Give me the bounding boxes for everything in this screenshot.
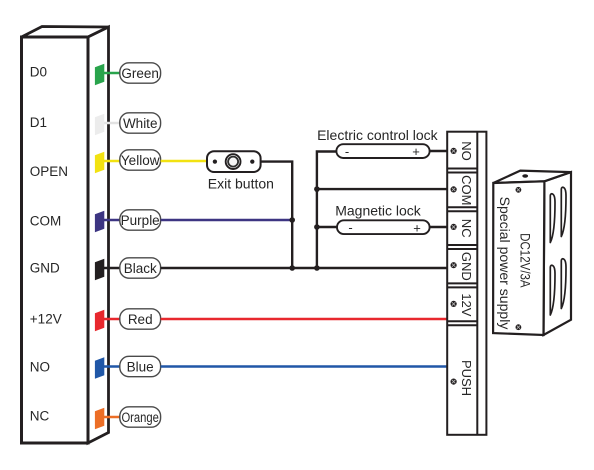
svg-text:Red: Red (128, 312, 153, 327)
label pill Purple (120, 210, 161, 230)
junction column 2 (317, 152, 337, 269)
exit button body (207, 151, 261, 172)
reader side face (88, 27, 109, 443)
power supply vent slot 1 (550, 194, 555, 243)
power supply vent slot 4 (561, 259, 566, 309)
wire stub blue (100, 365, 122, 368)
terminal screw NC (451, 224, 457, 230)
svg-text:Electric control lock: Electric control lock (317, 127, 439, 143)
svg-text:Black: Black (124, 261, 157, 276)
COM wire to terminal (317, 188, 448, 190)
label pill Blue (120, 356, 161, 376)
svg-text:Blue: Blue (127, 359, 154, 374)
junction dot column1/GND (289, 265, 295, 271)
exit button switch inner ring (228, 157, 238, 167)
svg-text:GND: GND (459, 252, 474, 281)
electric control lock body (336, 144, 429, 158)
power supply top face (493, 171, 571, 183)
svg-text:Magnetic lock: Magnetic lock (335, 203, 422, 219)
svg-text:NO: NO (459, 141, 474, 161)
connector green (95, 64, 104, 85)
svg-text:NC: NC (459, 219, 474, 238)
power supply front screw (516, 324, 522, 330)
svg-text:COM: COM (30, 213, 62, 228)
svg-text:Yellow: Yellow (121, 153, 160, 168)
svg-text:DC12V/3A: DC12V/3A (517, 233, 532, 288)
svg-text:Purple: Purple (121, 213, 160, 228)
svg-text:Special power supply: Special power supply (497, 197, 512, 330)
svg-text:D0: D0 (30, 65, 47, 80)
terminal screw GND (451, 262, 457, 268)
wire stub black (100, 267, 122, 270)
terminal divider 5 (447, 320, 477, 322)
svg-text:White: White (123, 116, 158, 131)
svg-text:12V: 12V (459, 293, 474, 316)
purple wire COM (161, 219, 293, 221)
junction dot column2/COM (314, 186, 320, 192)
svg-text:-: - (345, 144, 349, 159)
svg-text:PUSH: PUSH (459, 360, 474, 396)
connector purple (95, 211, 104, 233)
svg-text:COM: COM (459, 175, 474, 205)
svg-text:+: + (412, 144, 420, 159)
terminal screw 12V (451, 301, 457, 307)
junction dot purple/column1 (289, 217, 295, 223)
connector blue (95, 357, 104, 379)
svg-text:Orange: Orange (121, 410, 159, 425)
connector black (95, 259, 104, 281)
electric lock wire to NO (430, 150, 448, 152)
magnetic lock body (337, 220, 430, 234)
wire stub orange (100, 416, 122, 419)
svg-text:-: - (348, 220, 352, 235)
reader front face (22, 37, 89, 443)
terminal strip inner rail (476, 132, 478, 435)
blue wire PUSH (161, 365, 448, 368)
terminal strip body (447, 132, 486, 435)
connector red (95, 310, 104, 332)
connector orange (95, 408, 104, 430)
power supply front face (493, 181, 544, 335)
magnetic lock left stub (317, 226, 338, 228)
exit button switch outer ring (226, 154, 241, 169)
power supply front screw (516, 187, 522, 193)
wire stub purple (100, 219, 122, 222)
connector yellow (95, 152, 104, 174)
svg-text:OPEN: OPEN (30, 164, 68, 179)
connector white (95, 114, 104, 136)
power supply top screw (522, 174, 528, 177)
label pill Red (120, 309, 161, 329)
svg-text:+: + (413, 220, 421, 235)
terminal screw NO (451, 148, 457, 154)
power supply side face (544, 172, 572, 335)
wire stub white (100, 122, 122, 125)
power supply vent slot 2 (561, 187, 566, 236)
terminal divider 1 (447, 168, 477, 170)
junction dot column2/magnetic (314, 224, 320, 230)
wire exit button to junction column 1 (261, 162, 292, 268)
label pill Yellow (120, 150, 161, 170)
exit button left screw (213, 159, 217, 163)
label pill Orange (120, 407, 161, 427)
yellow wire to exit button (161, 160, 208, 163)
wire stub yellow (100, 160, 122, 163)
power supply vent slot 3 (550, 265, 555, 315)
svg-text:Green: Green (121, 66, 159, 81)
label pill Green (120, 63, 161, 83)
svg-text:Exit button: Exit button (208, 176, 274, 192)
junction dot column2/GND (314, 265, 320, 271)
svg-text:NC: NC (30, 409, 50, 424)
terminal screw PUSH (451, 379, 457, 385)
terminal screw COM (451, 186, 457, 192)
label pill White (120, 113, 161, 133)
terminal divider 2 (447, 206, 477, 208)
wire stub red (100, 318, 122, 321)
svg-text:GND: GND (30, 261, 60, 276)
black wire GND (161, 267, 448, 270)
red wire 12V (161, 318, 448, 321)
reader top face (22, 27, 109, 38)
svg-text:D1: D1 (30, 115, 47, 130)
exit button right screw (250, 159, 254, 163)
terminal divider 3 (447, 244, 477, 246)
svg-text:NO: NO (30, 360, 50, 375)
magnetic lock wire to NC (430, 226, 448, 228)
label pill Black (120, 258, 161, 278)
svg-text:+12V: +12V (30, 311, 62, 326)
terminal divider 4 (447, 282, 477, 284)
wire stub green (100, 72, 122, 75)
